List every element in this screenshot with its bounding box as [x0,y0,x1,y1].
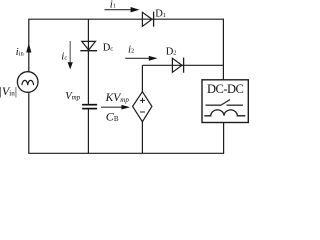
svg-text:D2: D2 [166,46,177,57]
diode Dc (triangle) [82,41,96,50]
svg-text:ic: ic [61,50,67,62]
gain arrow (fraction bar) [101,106,123,108]
minus sign [140,111,145,113]
current arrow i_in [26,43,31,52]
rectified sine symbol inside source [22,80,34,85]
capacitor CB top plate [82,104,97,106]
diode D2 cathode bar [183,58,185,73]
wire Dc/CB branch lower [87,109,89,154]
diode D1 (triangle) [142,12,152,26]
capacitor CB bottom plate [82,108,97,110]
wire bottom rail [28,152,223,154]
wire dependent-source branch upper [141,65,143,91]
svg-text:i1: i1 [110,0,116,11]
wire Dc/CB branch upper [87,19,89,104]
svg-text:Dc: Dc [103,42,114,53]
current arrow i_1 [105,9,132,11]
wire DC-DC output [223,123,225,154]
wire left branch lower [28,92,30,153]
svg-text:CB: CB [106,110,119,124]
diode Dc cathode bar [80,50,97,52]
svg-text:KVmp: KVmp [105,92,130,104]
wire D2 row [142,64,223,66]
diode D1 cathode bar [153,12,155,27]
diode D2 (triangle) [172,58,182,72]
wire right branch upper [222,19,224,80]
DC-DC converter block [202,80,248,123]
current arrow i_c [69,41,71,62]
switch S1 [206,100,244,106]
AC source U1 (|Vin|) [17,72,38,93]
svg-text:DC-DC: DC-DC [207,82,244,96]
dependent source E1 (diamond) [133,92,152,122]
inductor L1 [204,110,245,116]
svg-text:|Vin|: |Vin| [0,84,17,98]
wire left branch upper [28,19,30,72]
svg-text:i2: i2 [128,44,134,56]
current arrow i_2 [125,57,150,59]
wire dependent-source branch lower [141,122,143,154]
plus sign [140,98,145,103]
svg-text:D1: D1 [155,9,166,20]
svg-text:iin: iin [16,46,25,58]
wire top rail [29,18,224,20]
svg-text:Vmp: Vmp [65,91,80,102]
